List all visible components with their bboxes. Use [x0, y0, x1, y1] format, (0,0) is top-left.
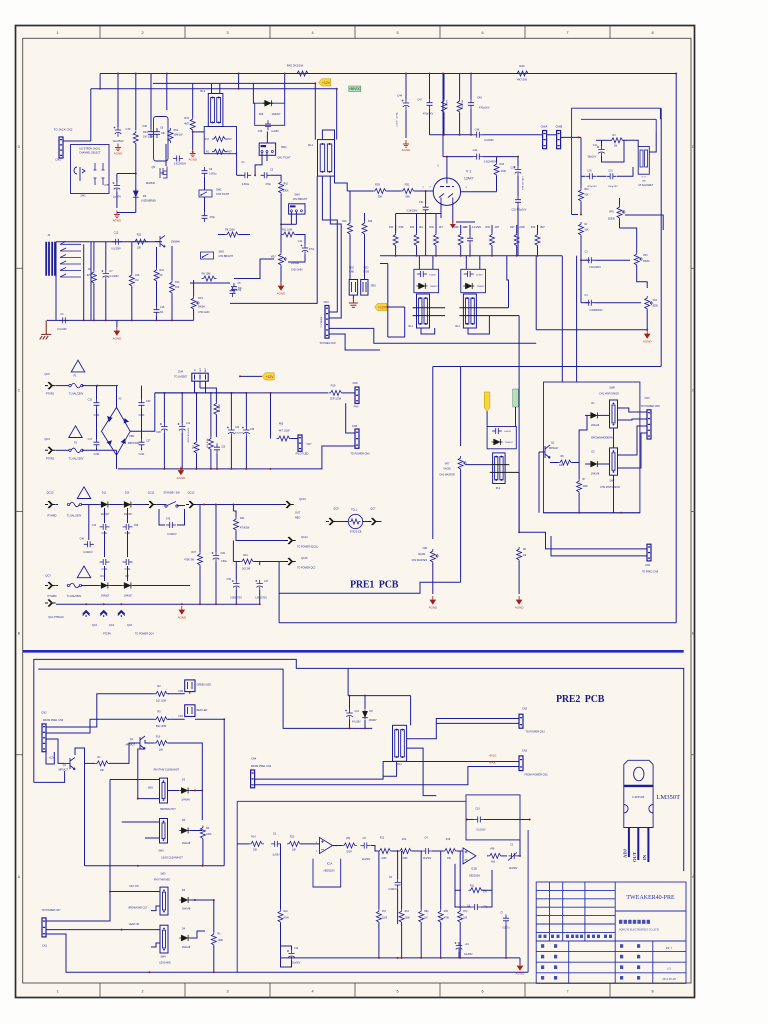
svg-text:R7p: R7p	[463, 911, 468, 913]
svg-text:CN9: CN9	[352, 382, 358, 385]
junction	[245, 468, 247, 470]
svg-text:DB1: DB1	[130, 435, 135, 438]
wire	[364, 235, 366, 280]
svg-text:R17: R17	[205, 138, 210, 141]
svg-text:TO POWER CN7: TO POWER CN7	[41, 909, 61, 912]
svg-text:0A/2M: 0A/2M	[418, 553, 425, 556]
junction	[442, 73, 444, 75]
wire	[601, 140, 603, 146]
svg-text:C13: C13	[114, 231, 119, 235]
capacitor C7b	[103, 270, 109, 280]
transformer tap	[60, 268, 81, 271]
diode box	[487, 427, 516, 449]
resistor R34	[133, 131, 138, 146]
wire	[240, 375, 262, 377]
svg-text:CN3: CN3	[323, 301, 329, 304]
wire	[296, 235, 305, 245]
wire	[378, 851, 380, 909]
wire	[280, 930, 282, 946]
capacitor C12	[302, 245, 308, 255]
junction	[675, 73, 677, 75]
svg-text:QC12: QC12	[188, 491, 195, 495]
junction	[349, 727, 351, 729]
svg-text:SW3: SW3	[281, 146, 287, 149]
junction	[466, 819, 468, 821]
junction	[420, 957, 422, 959]
svg-text:QC10: QC10	[299, 497, 306, 501]
svg-text:470p/1KV: 470p/1KV	[587, 186, 597, 188]
resistor R45	[442, 99, 447, 114]
wire	[116, 450, 118, 469]
svg-text:VR7: VR7	[445, 463, 450, 466]
wire	[432, 367, 434, 540]
resistor R35	[490, 233, 495, 248]
wire	[329, 176, 331, 220]
svg-text:D O: D O	[642, 177, 646, 179]
wire	[131, 242, 133, 273]
junction	[578, 136, 580, 138]
transformer tap	[60, 241, 81, 244]
wire	[443, 74, 445, 100]
junction	[156, 319, 158, 321]
connector CN30	[361, 280, 368, 296]
svg-text:C30: C30	[587, 170, 592, 173]
junction	[620, 512, 622, 514]
svg-text:10K: 10K	[137, 247, 142, 250]
svg-text:0.022/400V: 0.022/400V	[589, 267, 601, 269]
svg-text:C42: C42	[166, 518, 171, 521]
power ground	[349, 299, 358, 307]
sub box	[466, 795, 520, 840]
wire	[502, 855, 508, 857]
ground AGND	[114, 211, 120, 218]
resistor R12	[194, 440, 199, 455]
wire	[210, 451, 212, 469]
wire	[235, 562, 237, 581]
svg-text:1/2: 1/2	[667, 967, 671, 971]
svg-text:R27: R27	[510, 226, 515, 229]
svg-text:150R: 150R	[346, 852, 352, 854]
svg-text:470p/1KV: 470p/1KV	[423, 113, 434, 116]
resistor R65	[277, 436, 292, 441]
power ground	[450, 224, 456, 229]
svg-text:Q5: Q5	[152, 165, 156, 169]
wire	[336, 89, 338, 140]
wire	[202, 840, 204, 866]
resistor R20p	[287, 841, 302, 846]
wire	[636, 240, 638, 252]
wire	[156, 247, 158, 268]
junction	[254, 174, 256, 176]
wire	[135, 74, 137, 131]
junction	[230, 392, 232, 394]
wire	[56, 241, 162, 243]
diode D2	[591, 461, 597, 467]
svg-text:ADJ: ADJ	[204, 368, 207, 372]
wire	[435, 225, 437, 233]
svg-text:1u/63V: 1u/63V	[271, 130, 279, 133]
capacitor C70	[115, 127, 121, 137]
ground AGND	[430, 596, 435, 604]
wire	[396, 213, 441, 215]
resistor R10b	[154, 268, 159, 283]
svg-text:AGND: AGND	[428, 606, 438, 610]
capacitor C16	[154, 306, 160, 316]
svg-text:V 1: V 1	[466, 170, 471, 174]
svg-text:2: 2	[141, 31, 143, 35]
svg-text:VR2: VR2	[271, 256, 276, 259]
wire	[517, 206, 519, 256]
channel select box	[71, 145, 110, 194]
wire	[322, 446, 355, 469]
wire	[333, 845, 343, 847]
opamp block	[237, 801, 528, 972]
svg-text:CN8: CN8	[352, 425, 358, 428]
junction	[416, 255, 418, 257]
wire	[618, 433, 648, 468]
svg-text:3: 3	[226, 989, 228, 993]
capacitor C1	[59, 317, 69, 323]
wire	[196, 504, 286, 506]
wire	[581, 302, 590, 304]
svg-text:1N4148: 1N4148	[182, 842, 191, 845]
svg-text:TO POWER CN3: TO POWER CN3	[525, 731, 545, 734]
svg-text:A 0R C47 24b S: A 0R C47 24b S	[522, 175, 525, 189]
junction	[245, 392, 247, 394]
junction	[517, 156, 519, 158]
svg-text:0/42M: 0/42M	[198, 306, 205, 309]
svg-text:162 1/2W: 162 1/2W	[156, 700, 167, 703]
wire	[280, 923, 282, 958]
svg-text:CN7: CN7	[178, 715, 183, 718]
title block cells (CJK)	[541, 944, 640, 979]
wire	[459, 113, 461, 135]
resistor R2c	[579, 222, 584, 237]
svg-text:R14: R14	[251, 836, 256, 839]
contact line	[459, 315, 519, 317]
wire	[519, 532, 647, 549]
wire	[192, 131, 194, 150]
wire	[116, 192, 118, 208]
switch STANDBY	[165, 505, 167, 507]
junction	[336, 88, 338, 90]
diode box	[414, 269, 439, 292]
connector CN3q	[519, 756, 523, 771]
contact line	[490, 464, 510, 466]
wire	[135, 174, 137, 191]
resistor R16p	[398, 849, 413, 854]
capacitor C37	[139, 439, 145, 449]
ground AGND	[179, 606, 184, 614]
svg-text:TWEAKER40-PRE: TWEAKER40-PRE	[626, 895, 675, 901]
potentiometer VR4	[645, 296, 650, 311]
wire	[110, 504, 122, 506]
svg-text:8: 8	[651, 989, 653, 993]
capacitor C12p	[288, 950, 294, 960]
wire	[425, 191, 427, 204]
resistor R19	[329, 390, 344, 395]
wire	[646, 310, 648, 330]
junction	[166, 73, 168, 75]
svg-text:+12V: +12V	[322, 81, 331, 85]
wire	[432, 563, 434, 594]
wire	[483, 134, 540, 136]
wire	[245, 393, 247, 427]
svg-text:1M: 1M	[135, 279, 138, 282]
svg-text:10M/1W: 10M/1W	[174, 134, 184, 137]
wire	[190, 899, 214, 901]
wire	[47, 319, 194, 321]
wire	[401, 923, 403, 958]
relay RL2b	[463, 294, 476, 328]
svg-text:2W1: 2W1	[80, 194, 86, 198]
wire	[104, 566, 106, 581]
junction	[395, 255, 397, 257]
ground AGND	[517, 962, 522, 970]
wire	[395, 214, 397, 232]
wire	[105, 242, 107, 270]
svg-text:+88VDC: +88VDC	[349, 87, 362, 91]
wire	[46, 892, 110, 922]
svg-text:R41: R41	[240, 517, 245, 520]
wire	[237, 843, 249, 845]
wire	[580, 236, 582, 260]
svg-text:C51: C51	[419, 201, 424, 204]
junction	[435, 255, 437, 257]
svg-text:R30: R30	[429, 226, 434, 229]
svg-text:LEAD ON: LEAD ON	[129, 923, 140, 926]
svg-text:SW3: SW3	[158, 850, 164, 853]
capacitor C5	[231, 283, 237, 293]
wire	[205, 381, 207, 393]
wire	[412, 850, 422, 852]
svg-text:R20: R20	[290, 836, 295, 839]
svg-text:CH2 GAIN: CH2 GAIN	[291, 269, 303, 272]
wire	[93, 242, 95, 270]
svg-text:PT0R1: PT0R1	[46, 392, 55, 396]
fuse F3	[67, 503, 69, 505]
wire	[110, 779, 160, 781]
svg-text:TCL1: TCL1	[351, 509, 358, 512]
wire	[163, 393, 165, 423]
svg-text:C12: C12	[298, 240, 303, 243]
wire	[649, 132, 656, 152]
wire	[156, 305, 158, 307]
svg-text:0.56u: 0.56u	[221, 561, 227, 563]
svg-text:T1.6AL/250V: T1.6AL/250V	[67, 595, 82, 598]
wire	[637, 266, 648, 288]
wire	[486, 411, 488, 426]
wire	[578, 464, 580, 479]
svg-text:IC1B: IC1B	[471, 868, 477, 871]
svg-text:R37: R37	[191, 551, 196, 554]
tube V1 12AX7	[433, 178, 460, 205]
wire	[193, 280, 195, 296]
svg-text:R42 2K2/1W: R42 2K2/1W	[287, 64, 304, 68]
svg-text:CN2: CN2	[645, 564, 651, 567]
wire	[442, 74, 444, 157]
resistor R16	[129, 273, 134, 288]
svg-text:C14: C14	[186, 423, 191, 425]
wire	[211, 83, 213, 93]
svg-text:B25K: B25K	[653, 306, 659, 308]
wire	[215, 393, 217, 402]
svg-text:100K: 100K	[583, 486, 589, 488]
junction	[203, 504, 205, 506]
wire +15V rail	[155, 392, 328, 394]
svg-text:470K: 470K	[284, 918, 290, 920]
jack J-SW1	[74, 167, 85, 181]
zener D9p	[362, 711, 367, 717]
wire	[223, 719, 225, 865]
wire	[215, 416, 217, 438]
wire	[576, 256, 578, 382]
svg-text:9K1: 9K1	[419, 226, 424, 229]
wire	[550, 462, 558, 464]
switch SW1p	[160, 778, 168, 803]
svg-text:4M7: 4M7	[184, 123, 189, 126]
wire	[156, 316, 158, 320]
capacitor C48	[84, 541, 94, 547]
svg-text:VR3: VR3	[643, 255, 648, 257]
resistor R14	[249, 841, 264, 846]
wire	[104, 508, 106, 523]
svg-text:AGND: AGND	[516, 972, 526, 976]
svg-text:A2 2W1R: A2 2W1R	[218, 403, 221, 412]
svg-text:C29: C29	[221, 552, 226, 555]
svg-text:BROWN HOT: BROWN HOT	[160, 808, 176, 811]
diode D4p	[181, 935, 187, 941]
revision header (CJK)	[539, 935, 613, 938]
net flag	[319, 79, 331, 86]
resistor R8	[225, 232, 240, 237]
connector QC6	[118, 611, 125, 618]
resistor R16b	[208, 437, 213, 452]
svg-text:R65: R65	[279, 423, 284, 426]
diode D29	[265, 100, 271, 106]
wire	[487, 855, 488, 857]
junction	[163, 468, 165, 470]
wire	[109, 743, 134, 763]
resistor R62	[279, 180, 284, 195]
junction	[201, 790, 203, 792]
svg-text:1M: 1M	[523, 555, 526, 557]
resistor R22	[133, 239, 148, 244]
svg-text:SW7: SW7	[609, 480, 615, 483]
capacitor C40	[468, 99, 474, 109]
svg-text:SONGYI ELECTRONICS CO.,LTD: SONGYI ELECTRONICS CO.,LTD	[619, 929, 659, 932]
svg-text:C38: C38	[250, 429, 255, 431]
svg-text:+C1: +C1	[465, 944, 470, 946]
svg-text:STK20 CB: STK20 CB	[350, 531, 362, 534]
wire	[580, 169, 582, 188]
svg-text:BROWN MD CUT: BROWN MD CUT	[128, 907, 148, 910]
connector CN1p	[42, 918, 46, 937]
wire	[395, 247, 397, 256]
wire	[110, 585, 122, 587]
svg-text:DN2540: DN2540	[146, 182, 156, 185]
svg-text:QC5: QC5	[44, 372, 50, 376]
resistor R8b	[558, 460, 573, 465]
wire	[145, 740, 154, 743]
svg-text:R32: R32	[531, 226, 536, 229]
svg-text:0.001: 0.001	[94, 454, 100, 456]
svg-text:1N4148: 1N4148	[591, 424, 600, 427]
svg-text:QC3: QC3	[44, 437, 50, 441]
wire	[259, 562, 261, 566]
svg-text:ADJ: ADJ	[623, 848, 628, 858]
svg-text:VR1: VR1	[198, 297, 203, 300]
junction	[470, 134, 472, 136]
svg-text:RED: RED	[295, 517, 300, 520]
svg-text:1N4007: 1N4007	[272, 113, 281, 116]
wire	[90, 89, 92, 141]
svg-text:PILOT LED: PILOT LED	[296, 453, 309, 456]
wire	[195, 718, 224, 720]
wire	[266, 153, 268, 162]
wire	[99, 74, 101, 89]
wire	[619, 198, 621, 205]
svg-text:CN2: CN2	[41, 711, 47, 715]
svg-text:STANDBY SW: STANDBY SW	[163, 492, 180, 495]
wire	[116, 386, 118, 409]
svg-text:12AX7: 12AX7	[464, 177, 474, 181]
svg-text:VR4: VR4	[653, 300, 658, 302]
capacitor C46	[473, 132, 483, 138]
capacitor C1p	[456, 942, 462, 952]
wire	[56, 603, 259, 605]
wire	[517, 176, 519, 196]
svg-text:CN3: CN3	[644, 397, 650, 400]
wire	[190, 830, 202, 832]
svg-text:0.1/630V: 0.1/630V	[484, 139, 494, 142]
wire	[46, 929, 122, 931]
junction	[270, 468, 272, 470]
diode D6	[181, 897, 187, 903]
svg-text:2N5640: 2N5640	[171, 241, 180, 244]
resistor R10p	[154, 741, 169, 746]
svg-text:R6p: R6p	[424, 911, 429, 913]
svg-text:QC14: QC14	[301, 536, 308, 539]
contact line	[413, 307, 446, 309]
wire	[238, 74, 240, 89]
wire	[364, 696, 366, 709]
svg-text:C48: C48	[80, 538, 85, 541]
connector QC10	[283, 501, 294, 508]
junction	[210, 468, 212, 470]
wire	[440, 923, 442, 958]
svg-text:RL1: RL1	[409, 325, 414, 328]
svg-text:PRE2 PCB: PRE2 PCB	[556, 694, 605, 705]
svg-text:RL2: RL2	[455, 325, 460, 328]
wire	[280, 224, 282, 234]
wire	[483, 156, 518, 158]
svg-text:D10: D10	[125, 492, 130, 495]
connector CN5	[185, 680, 195, 692]
svg-text:SW8: SW8	[609, 387, 615, 390]
wire	[109, 780, 111, 892]
svg-text:0.1/250V: 0.1/250V	[447, 99, 449, 108]
svg-text:4K7: 4K7	[439, 226, 444, 229]
fuse F2	[69, 449, 71, 451]
wire anode	[446, 157, 448, 178]
wire	[343, 392, 356, 394]
resistor R46	[457, 99, 462, 114]
resistor R30	[434, 233, 439, 248]
svg-text:CN3: CN3	[522, 750, 528, 753]
wire	[281, 958, 292, 967]
junction	[580, 259, 582, 261]
